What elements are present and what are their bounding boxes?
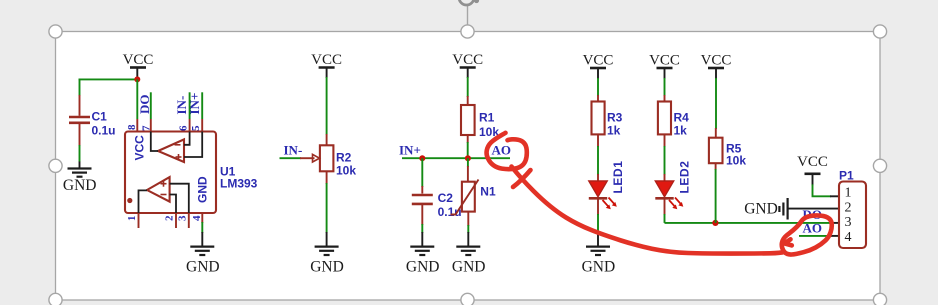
- svg-text:IN+: IN+: [187, 93, 202, 115]
- R5 bottom lead: [715, 163, 717, 170]
- resistor R4: [658, 102, 671, 135]
- ground below N1: [452, 232, 486, 276]
- svg-text:N1: N1: [480, 185, 496, 199]
- wire DO net horizontal: [665, 222, 831, 224]
- rotation handle stem: [467, 6, 469, 25]
- R5 top lead: [715, 128, 717, 138]
- wire pin 8 (VCC): [136, 79, 138, 119]
- svg-text:LED2: LED2: [678, 160, 692, 193]
- thermistor N1: [451, 166, 479, 226]
- ground below R2: [310, 232, 344, 276]
- part marker dot: [127, 198, 132, 203]
- wire node to C2: [421, 158, 423, 187]
- svg-text:VCC: VCC: [123, 52, 154, 68]
- wire R4 to LED2: [664, 146, 666, 175]
- red marker cross stroke (x): [513, 170, 531, 187]
- svg-text:LM393: LM393: [220, 177, 258, 191]
- wire pin5 to comparator A non-inverting input: [184, 132, 202, 158]
- power VCC (R5 column): [701, 53, 732, 80]
- svg-text:10k: 10k: [336, 164, 356, 178]
- svg-text:DO: DO: [137, 95, 152, 115]
- selection handle right-mid: [873, 159, 886, 172]
- red marker long swoosh to P1: [512, 167, 785, 254]
- pin 7 lead: [150, 119, 152, 131]
- wire pin6 to comparator A inverting input: [184, 132, 190, 145]
- wire C2 to ground: [421, 224, 423, 233]
- wire N1 to ground: [467, 225, 469, 233]
- svg-text:GND: GND: [452, 259, 486, 276]
- P1 pin3 lead: [830, 222, 840, 224]
- wire R1 to IN+ node: [467, 142, 469, 158]
- R4 top lead: [664, 95, 666, 102]
- pin 2 lead: [175, 213, 177, 228]
- selection handle bottom-left: [49, 293, 62, 305]
- white schematic sheet (selected image): [56, 32, 881, 301]
- svg-text:AO: AO: [492, 143, 512, 158]
- wire C1 top: [79, 79, 81, 97]
- connector P1 body: [839, 182, 866, 249]
- wire node to N1: [467, 158, 469, 167]
- svg-text:GND: GND: [744, 201, 778, 218]
- svg-text:GND: GND: [63, 177, 97, 194]
- power VCC (R4 column): [649, 53, 680, 80]
- svg-text:R1: R1: [479, 111, 495, 125]
- red marker circle around AO at P1: [782, 215, 832, 254]
- svg-text:R4: R4: [674, 111, 690, 125]
- svg-text:VCC: VCC: [583, 53, 614, 69]
- wire VCC to R2: [326, 77, 328, 135]
- svg-text:IN+: IN+: [399, 143, 421, 158]
- resistor R3: [592, 102, 605, 135]
- selection handle bottom-right: [873, 293, 886, 305]
- wire VCC to R3: [597, 78, 599, 96]
- node junction at VCC: [134, 76, 140, 82]
- svg-text:1k: 1k: [607, 124, 621, 138]
- ground below C1: [63, 162, 97, 195]
- power VCC (R2 column): [311, 52, 342, 78]
- resistor R5: [709, 138, 723, 164]
- resistor R1: [461, 105, 475, 135]
- selection handle bottom-center: [461, 293, 474, 305]
- ground below U1: [186, 232, 220, 276]
- wire comparator B non-inverting input to pin3: [170, 184, 189, 213]
- svg-text:IN-: IN-: [284, 143, 303, 158]
- wire VCC to R1: [467, 77, 469, 97]
- svg-text:VCC: VCC: [649, 53, 680, 69]
- pin 5 lead: [201, 119, 203, 131]
- pin 4 lead (GND): [201, 213, 203, 223]
- svg-text:GND: GND: [196, 176, 210, 203]
- wire pin7 to comparator A output: [151, 132, 158, 152]
- svg-text:GND: GND: [186, 259, 220, 276]
- svg-text:C2: C2: [438, 191, 454, 205]
- wire R5 to DO net: [715, 169, 717, 223]
- power VCC (P1): [797, 154, 828, 185]
- power VCC (R1 column): [452, 52, 483, 78]
- svg-text:P1: P1: [839, 169, 854, 183]
- pin 3 lead: [188, 213, 190, 228]
- comparator B triangle (bottom, points left): [147, 177, 170, 202]
- wire IN+ / AO node: [402, 157, 510, 159]
- svg-text:GND: GND: [310, 259, 344, 276]
- pin 1 lead: [138, 213, 140, 228]
- wire pin 5 (IN+ net): [201, 92, 203, 119]
- svg-text:VCC: VCC: [701, 53, 732, 69]
- wire VCC to P1 pin1: [813, 184, 832, 196]
- wire pin 7 (DO net): [150, 92, 152, 119]
- R1 top lead: [467, 96, 469, 105]
- R2 bottom lead: [326, 171, 328, 184]
- ground GND at P1 pin2 (sideways): [744, 198, 787, 220]
- svg-text:4: 4: [845, 230, 852, 245]
- P1 pin4 lead: [830, 235, 840, 237]
- svg-text:0.1u: 0.1u: [92, 124, 116, 138]
- capacitor C1: [69, 95, 90, 146]
- P1 pin1 lead: [830, 195, 840, 197]
- wire LED2 down to DO net: [664, 214, 666, 223]
- selection handle top-center: [461, 25, 474, 38]
- svg-text:1k: 1k: [674, 124, 688, 138]
- R3 bottom lead: [597, 134, 599, 147]
- wire VCC to R5: [715, 78, 717, 129]
- node junction N1: [465, 155, 471, 161]
- svg-text:GND: GND: [406, 259, 440, 276]
- svg-text:5: 5: [190, 125, 202, 131]
- red marker circle around AO node label: [487, 133, 527, 169]
- op-amp U1 LM393 body: [125, 132, 216, 214]
- pin 6 lead: [189, 119, 191, 131]
- selection handle left-mid: [49, 159, 62, 172]
- svg-text:8: 8: [126, 124, 138, 130]
- svg-text:VCC: VCC: [452, 52, 483, 68]
- LED2 top lead: [664, 174, 666, 182]
- wire pin 6 (IN- net): [189, 92, 191, 119]
- wire C1 bottom: [79, 145, 81, 162]
- wire AO net stub: [799, 235, 831, 237]
- power VCC (R3 column): [583, 53, 614, 80]
- wire GND to P1 pin2: [789, 208, 841, 210]
- svg-text:2: 2: [164, 215, 176, 221]
- node junction R5/DO: [712, 220, 718, 226]
- svg-text:7: 7: [141, 125, 153, 131]
- comparator A triangle (top, points left): [158, 139, 184, 162]
- svg-text:AO: AO: [803, 221, 823, 236]
- diode LED1: [589, 181, 617, 209]
- LED2 bottom lead: [664, 198, 666, 215]
- svg-text:1: 1: [126, 216, 138, 222]
- ground below LED1: [582, 232, 616, 276]
- svg-text:10k: 10k: [726, 154, 746, 168]
- R2 top lead: [326, 134, 328, 145]
- svg-text:R3: R3: [607, 111, 623, 125]
- pin 8 lead: [136, 119, 138, 131]
- svg-text:VCC: VCC: [311, 52, 342, 68]
- wire R2 to ground: [326, 183, 328, 233]
- wire VCC horizontal to C1: [79, 78, 138, 80]
- LED1 top lead: [597, 174, 599, 182]
- wire pin4 to ground: [201, 222, 203, 233]
- R3 top lead: [597, 95, 599, 102]
- selection handle top-left: [49, 25, 62, 38]
- wire comparator B inverting input to pin2: [170, 195, 176, 214]
- R4 bottom lead: [664, 134, 666, 147]
- rotation handle icon (clipped at top): [459, 0, 474, 5]
- svg-text:R2: R2: [336, 151, 352, 165]
- svg-text:C1: C1: [92, 110, 108, 124]
- power VCC (LM393 supply): [123, 52, 154, 78]
- R1 bottom lead: [467, 135, 469, 143]
- wire R3 to LED1: [597, 146, 599, 175]
- LED1 bottom lead: [597, 198, 599, 215]
- wire IN- net: [280, 157, 302, 159]
- svg-text:LED1: LED1: [611, 160, 625, 193]
- svg-text:GND: GND: [582, 259, 616, 276]
- svg-text:3: 3: [845, 215, 852, 230]
- capacitor C2: [412, 186, 433, 225]
- wire VCC to R4: [664, 78, 666, 96]
- svg-text:6: 6: [178, 125, 190, 131]
- red marker arrowhead inside circle: [784, 239, 792, 245]
- wire LED1 to ground: [597, 214, 599, 233]
- selection handle top-right: [873, 25, 886, 38]
- svg-text:3: 3: [176, 215, 188, 221]
- diode LED2: [655, 181, 683, 209]
- svg-text:VCC: VCC: [797, 154, 828, 170]
- svg-text:4: 4: [191, 215, 203, 221]
- node junction C2: [419, 155, 425, 161]
- svg-text:1: 1: [845, 186, 852, 201]
- potentiometer R2 body: [320, 145, 334, 171]
- ground below C2: [406, 232, 440, 276]
- R2 wiper arrow: [300, 154, 320, 162]
- wire comparator B output to pin1: [139, 190, 148, 213]
- svg-text:VCC: VCC: [133, 135, 147, 161]
- svg-text:2: 2: [845, 201, 852, 216]
